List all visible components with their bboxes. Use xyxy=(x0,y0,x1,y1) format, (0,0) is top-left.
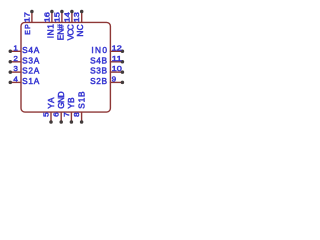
svg-text:S3A: S3A xyxy=(22,55,40,65)
pin 15 end dot xyxy=(60,10,64,14)
pin 15 EN# xyxy=(54,10,65,40)
svg-text:12: 12 xyxy=(112,43,122,52)
wire stub pin 8 xyxy=(81,112,83,122)
pin 7 end dot xyxy=(70,120,74,124)
wire stub pin 2 xyxy=(10,61,21,63)
svg-text:14: 14 xyxy=(64,12,71,22)
svg-text:10: 10 xyxy=(112,64,122,73)
svg-text:1: 1 xyxy=(13,43,18,52)
pin 5 YA xyxy=(43,97,55,124)
pin 13 end dot xyxy=(80,10,84,14)
pin 2 S3A xyxy=(9,54,40,66)
svg-text:16: 16 xyxy=(44,12,51,22)
svg-text:4: 4 xyxy=(13,74,18,83)
svg-text:5: 5 xyxy=(43,112,50,117)
wire stub pin 15 xyxy=(61,12,63,24)
pin 8 S1B xyxy=(74,91,86,124)
pin 4 end dot xyxy=(9,81,13,85)
svg-text:S3B: S3B xyxy=(90,66,107,76)
wire stub pin 14 xyxy=(71,12,73,24)
wire stub pin 1 xyxy=(10,50,21,52)
pin 9 end dot xyxy=(121,81,125,85)
svg-text:S2B: S2B xyxy=(90,76,107,86)
pin 7 YB xyxy=(64,97,76,124)
svg-text:9: 9 xyxy=(112,74,117,83)
svg-text:EN#: EN# xyxy=(55,24,65,40)
svg-text:3: 3 xyxy=(13,64,18,73)
svg-text:IN1: IN1 xyxy=(45,24,55,39)
IC body U1 xyxy=(21,22,110,112)
wire stub pin 11 xyxy=(110,61,123,63)
svg-text:6: 6 xyxy=(54,112,61,117)
wire stub pin 10 xyxy=(110,71,123,73)
pin 10 end dot xyxy=(121,70,125,74)
svg-text:S1B: S1B xyxy=(76,91,86,109)
wire stub pin 12 xyxy=(110,50,123,52)
wire stub pin 13 xyxy=(81,12,83,24)
pin 11 S4B xyxy=(90,54,124,66)
svg-text:YB: YB xyxy=(66,97,76,109)
svg-text:7: 7 xyxy=(64,112,71,117)
pin 12 IN0 xyxy=(91,43,124,55)
pin 9 S2B xyxy=(90,74,124,86)
svg-text:NC: NC xyxy=(75,24,85,36)
svg-text:11: 11 xyxy=(112,54,122,63)
pin 11 end dot xyxy=(121,60,125,64)
pin 13 NC xyxy=(74,10,85,37)
wire stub pin 3 xyxy=(10,71,21,73)
svg-text:S4A: S4A xyxy=(22,45,40,55)
wire stub pin 9 xyxy=(110,81,123,83)
pin 3 S2A xyxy=(9,64,40,76)
pin 12 end dot xyxy=(121,50,125,54)
pin 14 VCC xyxy=(64,10,75,41)
pin 16 IN1 xyxy=(44,10,55,39)
wire stub pin 4 xyxy=(10,81,21,83)
pin 6 GND xyxy=(54,91,66,123)
pin 16 end dot xyxy=(50,10,54,14)
pin 1 S4A xyxy=(9,43,40,55)
svg-text:17: 17 xyxy=(24,12,31,22)
svg-text:8: 8 xyxy=(74,112,81,117)
svg-text:15: 15 xyxy=(54,12,61,22)
wire stub pin 7 xyxy=(70,112,72,122)
pin 2 end dot xyxy=(9,60,13,64)
pin 6 end dot xyxy=(59,120,63,124)
svg-text:13: 13 xyxy=(74,12,81,22)
pin 17 EP xyxy=(24,10,33,35)
pin 1 end dot xyxy=(9,50,13,54)
svg-text:S4B: S4B xyxy=(90,55,107,65)
pin 8 end dot xyxy=(80,120,84,124)
svg-text:YA: YA xyxy=(46,97,56,109)
svg-text:GND: GND xyxy=(56,91,66,108)
wire stub pin 6 xyxy=(60,112,62,122)
svg-text:2: 2 xyxy=(13,54,18,63)
pin 17 end dot xyxy=(30,10,34,14)
pin 10 S3B xyxy=(90,64,124,76)
wire stub pin 5 xyxy=(50,112,52,122)
svg-text:S2A: S2A xyxy=(22,66,40,76)
wire stub pin 17 xyxy=(31,12,33,24)
pin 4 S1A xyxy=(9,74,40,86)
pin 3 end dot xyxy=(9,70,13,74)
svg-text:VCC: VCC xyxy=(65,24,75,40)
wire stub pin 16 xyxy=(51,12,53,24)
pin 14 end dot xyxy=(70,10,74,14)
svg-text:S1A: S1A xyxy=(22,76,40,86)
pin 5 end dot xyxy=(49,120,53,124)
svg-text:EP: EP xyxy=(25,24,32,35)
